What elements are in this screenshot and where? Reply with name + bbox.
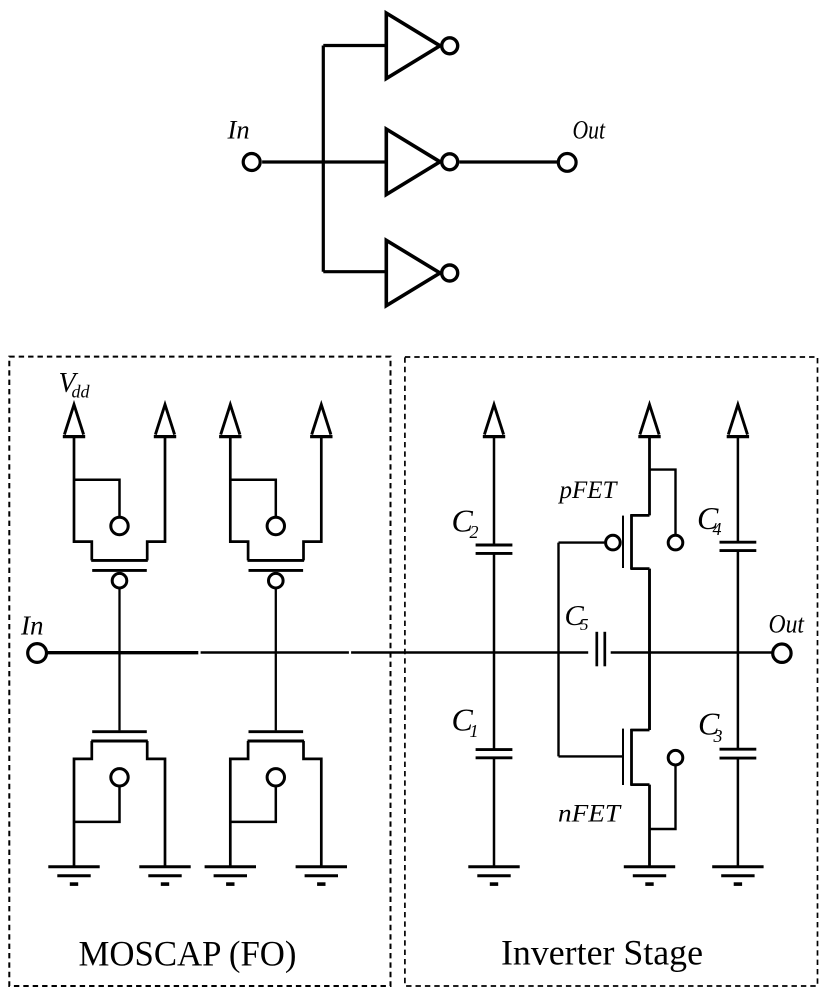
pMOS moscap M2a channel bar <box>248 559 305 562</box>
wire Out line <box>611 651 773 654</box>
wire pFET gate <box>559 541 605 543</box>
label C1 <box>452 701 479 741</box>
label C2 <box>452 502 479 542</box>
wire Vdd to C4 <box>737 438 740 541</box>
nFET bulk to ground <box>650 750 683 829</box>
inverter U3 (bottom) <box>386 240 457 305</box>
svg-text:MOSCAP (FO): MOSCAP (FO) <box>79 934 297 974</box>
svg-text:In: In <box>20 611 44 641</box>
svg-text:3: 3 <box>713 726 723 746</box>
wire nFET gate <box>559 755 624 757</box>
wire stub to bottom inverter <box>323 270 386 273</box>
capacitor C1 <box>476 750 513 758</box>
nMOS moscap M1b gate bar <box>92 730 147 733</box>
power arrow Vdd (M2 left) <box>219 405 241 437</box>
wire C2 to C1 <box>493 554 496 748</box>
capacitor C3 <box>720 749 757 758</box>
pMOS moscap M1a gate bar <box>92 569 147 572</box>
power arrow Vdd (C4 branch) <box>727 405 749 437</box>
capacitor C4 <box>720 542 757 550</box>
svg-text:5: 5 <box>580 615 589 634</box>
power arrow Vdd (inverter) <box>638 405 660 437</box>
dashed box Inverter Stage <box>405 357 818 986</box>
node Out (bottom) <box>769 608 805 662</box>
capacitor C2 <box>476 545 513 553</box>
wire C1 to ground <box>493 759 496 866</box>
ground (M1 right) <box>139 867 190 884</box>
pMOS moscap M1a source/drain arms <box>74 438 165 560</box>
svg-text:1: 1 <box>470 721 479 741</box>
svg-text:Inverter Stage: Inverter Stage <box>501 933 703 973</box>
dashed box MOSCAP (FO) <box>9 357 390 986</box>
wire U2 output to Out <box>459 160 557 163</box>
power arrow Vdd (M2 right) <box>310 405 332 437</box>
ground (M1 left) <box>48 867 99 884</box>
label Vdd <box>59 368 91 402</box>
ground (C1) <box>468 867 519 884</box>
pMOS moscap M1a bulk connection <box>74 480 128 535</box>
nMOS moscap M1b source/drain arms <box>74 741 165 866</box>
pMOS moscap M1a channel bar <box>91 559 148 562</box>
transistor nFET U5 <box>623 729 650 786</box>
wire gate M2a to In line <box>275 589 277 653</box>
wire In line segment 3 <box>351 651 588 654</box>
wire In line segment 2 <box>201 651 349 654</box>
svg-text:dd: dd <box>72 382 91 402</box>
nMOS moscap M2b channel bar <box>248 740 305 743</box>
nMOS moscap M2b source/drain arms <box>230 741 321 866</box>
node In (bottom) <box>20 611 47 663</box>
node Out (top) <box>558 115 605 172</box>
ground (M2 right) <box>296 867 347 884</box>
svg-text:Out: Out <box>573 115 606 145</box>
svg-text:Out: Out <box>769 608 805 638</box>
wire stub to top inverter <box>323 44 386 47</box>
power arrow Vdd (C2 branch) <box>483 405 505 437</box>
label C4 <box>697 500 722 539</box>
wire gate bus vertical <box>557 543 559 757</box>
wire C4 to C3 <box>737 552 740 749</box>
power arrow Vdd (M1 left) <box>63 405 85 437</box>
wire gate M1a to In line <box>118 589 120 653</box>
nMOS moscap M2b gate bar <box>249 730 304 733</box>
inverter U1 (top) <box>386 13 457 78</box>
capacitor C5 <box>597 632 605 667</box>
svg-text:pFET: pFET <box>558 477 619 504</box>
svg-text:2: 2 <box>470 522 479 542</box>
pMOS moscap M2a source/drain arms <box>230 438 321 560</box>
pMOS moscap M2a gate bar <box>249 569 304 572</box>
inverter U2 (middle) <box>386 129 457 194</box>
svg-text:nFET: nFET <box>558 800 622 827</box>
nMOS moscap M1b channel bar <box>91 740 148 743</box>
ground (C3) <box>712 867 763 884</box>
power arrow Vdd (M1 right) <box>154 405 176 437</box>
wire Vdd to C2 <box>493 438 496 544</box>
wire In line segment 1 <box>48 651 198 654</box>
nMOS moscap M2b bulk connection <box>230 769 284 822</box>
pFET bulk to Vdd <box>650 470 683 550</box>
ground (inverter) <box>624 867 675 884</box>
node In (top) <box>227 114 261 170</box>
wire Vdd to pFET source <box>648 438 651 515</box>
svg-text:In: In <box>227 114 250 144</box>
wire In to input bus <box>262 160 386 163</box>
pMOS moscap M2a bulk connection <box>230 480 284 535</box>
label C5 <box>565 600 589 634</box>
wire C3 to ground <box>737 759 740 866</box>
transistor pFET U4 <box>606 514 650 569</box>
nMOS moscap M1b bulk connection <box>74 769 128 822</box>
label C3 <box>698 706 723 747</box>
wire nFET source to ground <box>648 785 651 866</box>
pMOS moscap M2a gate bubble <box>269 573 284 588</box>
wire pFET drain to nFET drain (output) <box>648 569 651 730</box>
wire In line to gate M2b <box>275 653 277 731</box>
wire input bus vertical <box>322 46 325 272</box>
ground (M2 left) <box>205 867 256 884</box>
svg-text:4: 4 <box>713 519 722 539</box>
wire In line to gate M1b <box>118 653 120 731</box>
pMOS moscap M1a gate bubble <box>112 573 127 588</box>
